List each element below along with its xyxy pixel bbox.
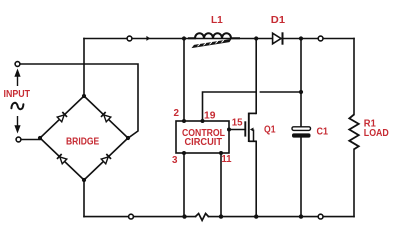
junction dot C1 bottom xyxy=(299,214,303,218)
arrow input upper xyxy=(15,71,19,87)
diode CR-D bottom-right arm of bridge xyxy=(101,154,111,164)
terminal bottom rail right xyxy=(318,214,323,219)
svg-text:2: 2 xyxy=(174,108,180,119)
wire right rail R1 bottom xyxy=(353,149,355,216)
wire pin11 drop xyxy=(220,153,222,217)
junction dot pin19 to C1 branch xyxy=(299,90,303,94)
wire bridge top to top rail xyxy=(83,39,85,97)
svg-text:L1: L1 xyxy=(211,15,223,26)
capacitor C1 xyxy=(292,127,311,138)
ac sine symbol xyxy=(11,103,23,109)
junction dot bridge left xyxy=(38,136,42,140)
diode CR-B top-right arm of bridge xyxy=(101,112,111,122)
svg-text:LOAD: LOAD xyxy=(364,128,389,139)
pin dot 11 xyxy=(219,151,223,155)
wire top input to bridge right xyxy=(20,64,138,139)
junction dot bridge top xyxy=(82,94,86,98)
wire pin15 gate lead xyxy=(229,129,245,131)
diode CR-A top-left arm of bridge xyxy=(57,112,67,122)
wire pin2 riser xyxy=(183,39,185,122)
svg-text:15: 15 xyxy=(232,117,243,128)
terminal bottom rail left xyxy=(129,214,134,219)
pin dot 3 xyxy=(182,151,186,155)
wire pin19 to C1 node xyxy=(260,91,301,93)
svg-text:CIRCUIT: CIRCUIT xyxy=(185,137,223,148)
wire pin3 drop xyxy=(183,153,185,217)
terminal top rail left xyxy=(127,36,132,41)
wire right rail R1 top xyxy=(353,39,355,115)
svg-text:D1: D1 xyxy=(271,15,285,26)
svg-text:INPUT: INPUT xyxy=(4,89,31,100)
bridge diamond xyxy=(40,96,128,180)
pin dot 15 xyxy=(227,128,231,132)
junction dot source bottom xyxy=(254,214,258,218)
junction dot L1 left / pin2 xyxy=(182,36,186,40)
junction dot L1 right / drain node xyxy=(254,36,258,40)
pin dot 2 xyxy=(182,119,186,123)
wire C1 top branch xyxy=(300,39,302,128)
pin dot 19 xyxy=(201,119,205,123)
inductor L1 coil xyxy=(188,33,240,38)
wire C1 bottom branch xyxy=(300,138,302,217)
junction dot pin3 bottom xyxy=(182,214,186,218)
junction dot pin11 bottom xyxy=(219,214,223,218)
wire top rail xyxy=(84,38,354,40)
svg-text:BRIDGE: BRIDGE xyxy=(66,136,99,147)
diode D1 xyxy=(273,32,283,44)
arrow current flow top rail xyxy=(146,36,150,41)
diode CR-C bottom-left arm of bridge xyxy=(57,154,67,164)
arrow input lower xyxy=(15,116,19,132)
resistor sense bottom zigzag xyxy=(195,214,209,221)
svg-text:19: 19 xyxy=(204,111,216,122)
control circuit box U1 xyxy=(176,121,229,153)
terminal bottom input xyxy=(16,137,21,142)
svg-text:3: 3 xyxy=(172,155,178,166)
wire Q1 drain xyxy=(255,39,257,114)
wire bottom rail left of resistor xyxy=(84,216,196,218)
junction dot D1 cathode / C1 top xyxy=(299,36,303,40)
wire bridge bottom to bottom rail xyxy=(83,180,85,217)
inductor L1 core bar xyxy=(192,39,232,48)
transistor Q1 mosfet xyxy=(245,113,256,142)
terminal top rail right xyxy=(318,36,323,41)
svg-text:Q1: Q1 xyxy=(264,125,276,136)
svg-text:C1: C1 xyxy=(317,126,329,137)
wire bottom input to bridge left xyxy=(21,139,40,141)
wire pin19 riser xyxy=(203,92,256,121)
junction dot bridge bottom xyxy=(82,178,86,182)
terminal top input xyxy=(15,62,20,67)
wire Q1 source to bottom rail xyxy=(255,141,257,216)
wire bottom rail right of resistor xyxy=(209,216,355,218)
svg-text:11: 11 xyxy=(222,154,232,165)
resistor R1 zigzag xyxy=(349,115,358,150)
junction dot bridge right xyxy=(126,136,130,140)
